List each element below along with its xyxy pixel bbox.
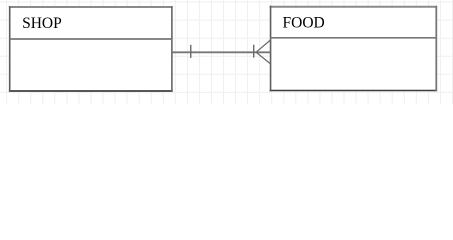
crow's foot many (FOOD side)	[256, 40, 270, 64]
svg-text:SHOP: SHOP	[22, 15, 62, 32]
divider SHOP title row	[10, 38, 172, 40]
entity FOOD	[270, 6, 438, 92]
wire relationship SHOP to FOOD	[172, 51, 270, 53]
svg-text:FOOD: FOOD	[283, 14, 325, 31]
entity SHOP	[9, 6, 173, 92]
cardinality one tick (SHOP side)	[190, 45, 192, 58]
divider FOOD title row	[271, 37, 437, 39]
cardinality one tick (FOOD side)	[253, 45, 255, 58]
